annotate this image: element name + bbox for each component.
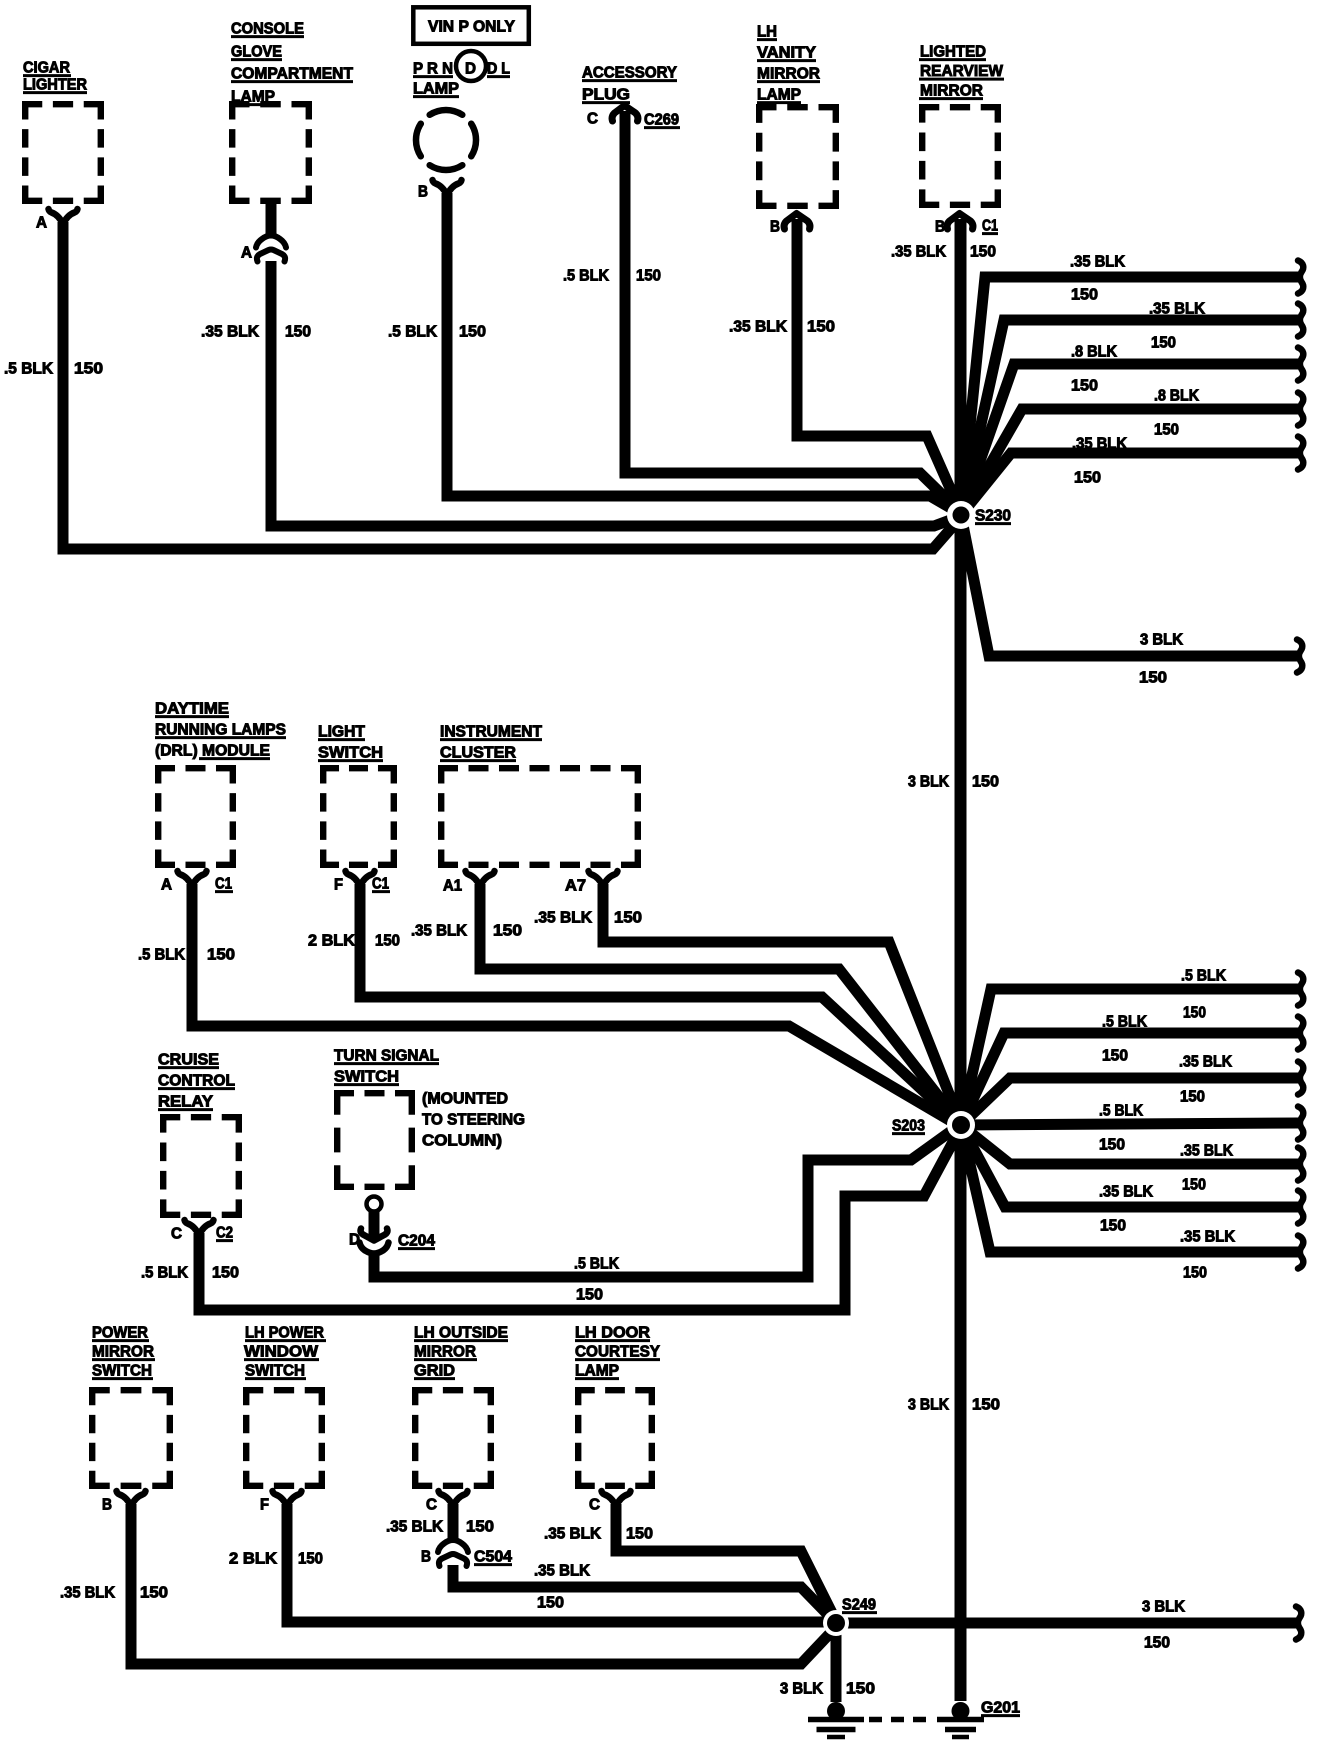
svg-text:C: C <box>171 1226 182 1243</box>
component box POWER MIRROR SWITCH <box>89 1387 173 1393</box>
svg-text:.35 BLK: .35 BLK <box>1070 254 1125 271</box>
wire end clip S203 b1 <box>1298 973 1303 1006</box>
component box LIGHTED REARVIEW MIRROR <box>919 104 1001 110</box>
svg-text:3 BLK: 3 BLK <box>780 1681 823 1698</box>
svg-text:150: 150 <box>285 324 311 341</box>
wire S203 branch 5 (.35 BLK 150) <box>961 1125 1298 1164</box>
connector Y at cluster pin A1 <box>466 871 495 886</box>
svg-text:150: 150 <box>970 244 996 261</box>
wire cluster A7 to S203 (.35 BLK 150) <box>603 884 961 1124</box>
wire turn signal stub <box>369 1211 380 1239</box>
connector Y at cruise relay pin C <box>185 1220 214 1235</box>
svg-text:150: 150 <box>614 910 642 927</box>
svg-text:.5 BLK: .5 BLK <box>141 1265 188 1282</box>
splice S230 <box>947 501 975 529</box>
component box CIGAR LIGHTER <box>22 101 104 107</box>
wire end clip branch 2 <box>1298 304 1303 337</box>
svg-text:B: B <box>421 1549 431 1566</box>
svg-text:.8 BLK: .8 BLK <box>1071 344 1117 361</box>
wire mirror grid stub (.35 BLK 150) <box>448 1504 459 1541</box>
wire S203 branch 7 (.35 BLK 150) <box>961 1125 1298 1252</box>
wire cruise relay to S203 (.5 BLK 150) <box>199 1127 961 1310</box>
svg-text:C: C <box>426 1497 437 1514</box>
component box LH POWER WINDOW SWITCH <box>243 1387 325 1393</box>
wire S203 branch 2 (.5 BLK 150) <box>961 1033 1298 1125</box>
svg-text:.8 BLK: .8 BLK <box>1154 388 1199 405</box>
svg-text:.35 BLK: .35 BLK <box>1072 436 1127 453</box>
connector Y at DRL pin A <box>178 871 207 886</box>
svg-text:150: 150 <box>846 1681 875 1698</box>
svg-text:.5 BLK: .5 BLK <box>563 268 609 285</box>
svg-text:150: 150 <box>375 933 400 950</box>
component box DRL MODULE <box>155 765 236 771</box>
wire S230 branch 5 (.35 BLK 150) <box>961 453 1298 515</box>
svg-text:150: 150 <box>807 319 835 336</box>
svg-text:A: A <box>36 215 47 232</box>
svg-text:150: 150 <box>1180 1089 1205 1106</box>
svg-text:.35 BLK: .35 BLK <box>411 923 467 940</box>
component box TURN SIGNAL SWITCH <box>334 1090 415 1096</box>
svg-text:150: 150 <box>1102 1048 1128 1065</box>
wire power mirror switch to S249 (.35 BLK 150) <box>131 1504 836 1664</box>
wire console lamp stub <box>266 204 277 236</box>
wire end clip S203 b7 <box>1298 1236 1303 1269</box>
svg-text:(MOUNTED: (MOUNTED <box>422 1091 508 1108</box>
component box LH VANITY MIRROR LAMP <box>756 104 839 110</box>
svg-text:B: B <box>770 219 780 236</box>
wire S230 branch 4 (.8 BLK 150) <box>961 409 1298 515</box>
wire S203 branch 6 (.35 BLK 150) <box>961 1125 1298 1207</box>
dashed bond between grounds <box>869 1717 935 1723</box>
svg-text:B: B <box>102 1497 112 1514</box>
component box LIGHT SWITCH <box>320 765 397 771</box>
svg-text:150: 150 <box>972 774 999 791</box>
svg-text:VIN P ONLY: VIN P ONLY <box>428 19 515 36</box>
wire S230 branch 3 (.8 BLK 150) <box>961 364 1298 515</box>
svg-text:150: 150 <box>1100 1218 1126 1235</box>
component box CRUISE CONTROL RELAY <box>160 1114 242 1120</box>
svg-text:.5 BLK: .5 BLK <box>138 947 185 964</box>
wire end clip branch 3 <box>1298 348 1303 381</box>
svg-text:.35 BLK: .35 BLK <box>534 910 592 927</box>
component box LH OUTSIDE MIRROR GRID <box>412 1387 494 1393</box>
wire end clip 3BLK branch <box>1297 640 1302 673</box>
wire turn signal to S203 (.5 BLK 150) <box>374 1124 961 1277</box>
svg-text:150: 150 <box>212 1265 239 1282</box>
wire end clip S203 b2 <box>1298 1017 1303 1050</box>
svg-text:150: 150 <box>74 361 103 378</box>
ground symbol at S249 drop <box>827 1702 845 1720</box>
splice S249 <box>823 1610 849 1636</box>
svg-text:.5 BLK: .5 BLK <box>1102 1014 1147 1031</box>
svg-text:TO STEERING: TO STEERING <box>422 1112 525 1129</box>
svg-text:150: 150 <box>140 1585 168 1602</box>
connector arrow at accessory plug pin C <box>612 106 638 122</box>
svg-text:150: 150 <box>1074 470 1101 487</box>
svg-text:.5 BLK: .5 BLK <box>1181 968 1226 985</box>
lamp symbol PRNDDL (dashed circle) <box>416 110 476 170</box>
svg-text:150: 150 <box>1182 1177 1206 1194</box>
svg-text:150: 150 <box>466 1519 494 1536</box>
svg-text:150: 150 <box>1144 1635 1170 1652</box>
connector Y at cluster pin A7 <box>589 871 618 886</box>
svg-text:3 BLK: 3 BLK <box>908 1397 949 1414</box>
wire end clip branch 4 <box>1298 393 1303 426</box>
svg-text:150: 150 <box>1139 670 1167 687</box>
svg-text:150: 150 <box>626 1526 653 1543</box>
inline connector C204 at pin D <box>361 1229 388 1241</box>
wire end clip S203 b4 <box>1298 1107 1303 1140</box>
svg-text:2 BLK: 2 BLK <box>229 1551 277 1568</box>
connector Y at cigar lighter pin A <box>49 209 78 224</box>
svg-text:.35 BLK: .35 BLK <box>729 319 787 336</box>
wire S230 branch 3 BLK 150 (lower right) <box>961 515 1297 656</box>
wire S203 branch 3 (.35 BLK 150) <box>961 1078 1298 1125</box>
connector Y at power mirror pin B <box>117 1491 146 1506</box>
svg-text:A: A <box>161 877 172 894</box>
svg-text:COLUMN): COLUMN) <box>422 1133 502 1150</box>
connector arrow at rearview mirror pin B <box>947 214 973 230</box>
svg-text:150: 150 <box>459 324 486 341</box>
svg-text:A1: A1 <box>443 878 462 895</box>
svg-text:150: 150 <box>493 923 522 940</box>
svg-text:3 BLK: 3 BLK <box>908 774 949 791</box>
pin circle on turn signal switch <box>367 1197 382 1212</box>
svg-text:3 BLK: 3 BLK <box>1142 1599 1185 1616</box>
wire S203 branch 4 (.5 BLK 150) <box>961 1123 1298 1125</box>
svg-text:F: F <box>260 1497 269 1514</box>
wire S230 branch 2 (.35 BLK 150) <box>961 320 1298 515</box>
svg-text:150: 150 <box>207 947 235 964</box>
wire mirror grid to S249 (.35 BLK 150) <box>453 1565 836 1623</box>
wire end clip branch 1 <box>1298 261 1303 294</box>
wire end clip branch 5 <box>1298 437 1303 470</box>
wire PRNDDL lamp to S230 (.5 BLK 150) <box>447 193 961 514</box>
svg-text:150: 150 <box>636 268 661 285</box>
wire console lamp to S230 (.35 BLK 150) <box>271 261 961 526</box>
svg-text:.35 BLK: .35 BLK <box>891 244 946 261</box>
svg-text:150: 150 <box>972 1397 1000 1414</box>
svg-text:.5 BLK: .5 BLK <box>4 361 53 378</box>
svg-text:A7: A7 <box>565 878 586 895</box>
svg-text:.35 BLK: .35 BLK <box>1149 301 1205 318</box>
inline connector C504 <box>438 1540 468 1552</box>
wire end clip S203 b5 <box>1298 1148 1303 1181</box>
svg-text:2 BLK: 2 BLK <box>308 933 355 950</box>
wire cluster A1 to S203 (.35 BLK 150) <box>480 884 961 1125</box>
svg-text:.5 BLK: .5 BLK <box>388 324 437 341</box>
svg-text:150: 150 <box>576 1287 603 1304</box>
svg-text:150: 150 <box>298 1551 323 1568</box>
component box CONSOLE GLOVE COMPARTMENT LAMP <box>229 101 312 107</box>
wire S249 to right (3 BLK 150) <box>845 1618 1296 1629</box>
svg-text:.5 BLK: .5 BLK <box>1099 1103 1143 1120</box>
svg-text:150: 150 <box>1183 1005 1206 1022</box>
wire vanity lamp to S230 (.35 BLK 150) <box>797 219 961 513</box>
wire cigar lighter to S230 (.5 BLK 150) <box>63 222 961 549</box>
wire S249 to ground (3 BLK 150) <box>831 1628 842 1702</box>
wire window switch to S249 (2 BLK 150) <box>287 1504 836 1622</box>
svg-text:.35 BLK: .35 BLK <box>201 324 259 341</box>
connector arrow at vanity lamp pin B <box>784 214 810 230</box>
wire main ground vertical (rearview mirror to G201) <box>955 219 967 1701</box>
svg-text:D: D <box>465 61 476 78</box>
connector Y at PRNDDL pin B <box>433 180 462 195</box>
wire light switch to S203 (2 BLK 150) <box>360 884 961 1126</box>
wire end clip S203 b3 <box>1298 1062 1303 1095</box>
note box VIN P ONLY <box>413 7 529 44</box>
svg-text:.35 BLK: .35 BLK <box>386 1519 443 1536</box>
component box INSTRUMENT CLUSTER <box>438 765 641 771</box>
svg-text:150: 150 <box>1071 287 1098 304</box>
svg-text:.35 BLK: .35 BLK <box>1179 1054 1232 1071</box>
wire end clip S249 branch <box>1296 1607 1301 1640</box>
svg-text:.35 BLK: .35 BLK <box>60 1585 115 1602</box>
svg-text:A: A <box>241 245 252 262</box>
svg-text:150: 150 <box>1154 422 1179 439</box>
connector Y at mirror grid pin C <box>439 1491 468 1506</box>
svg-text:B: B <box>418 184 428 201</box>
svg-text:C: C <box>589 1497 600 1514</box>
wire S230 branch 1 (.35 BLK 150) <box>961 277 1298 515</box>
svg-text:.35 BLK: .35 BLK <box>1099 1184 1153 1201</box>
ground G201 symbol <box>952 1702 970 1720</box>
wire courtesy lamp to S249 (.35 BLK 150) <box>616 1504 836 1621</box>
svg-text:.35 BLK: .35 BLK <box>534 1563 590 1580</box>
wire S203 branch 1 (.5 BLK 150) <box>961 989 1298 1125</box>
svg-text:3 BLK: 3 BLK <box>1140 632 1183 649</box>
svg-text:.5 BLK: .5 BLK <box>574 1256 619 1273</box>
svg-text:150: 150 <box>1151 335 1176 352</box>
connector Y at window switch pin F <box>273 1491 302 1506</box>
connector Y at courtesy lamp pin C <box>602 1491 631 1506</box>
svg-text:.35 BLK: .35 BLK <box>1180 1229 1235 1246</box>
connector Y at light switch pin F <box>346 871 375 886</box>
svg-text:150: 150 <box>1099 1137 1125 1154</box>
wire accessory plug to S230 (.5 BLK 150) <box>625 111 961 513</box>
wire DRL module to S203 (.5 BLK 150) <box>192 884 961 1127</box>
svg-text:150: 150 <box>1183 1265 1207 1282</box>
svg-text:.35 BLK: .35 BLK <box>1180 1143 1233 1160</box>
svg-text:150: 150 <box>537 1595 564 1612</box>
svg-text:150: 150 <box>1071 378 1098 395</box>
svg-text:C: C <box>587 111 598 128</box>
svg-text:.35 BLK: .35 BLK <box>544 1526 601 1543</box>
inline connector at console lamp pin A <box>256 236 286 248</box>
wire end clip S203 b6 <box>1298 1191 1303 1224</box>
splice S203 <box>947 1111 975 1139</box>
svg-text:F: F <box>334 877 343 894</box>
svg-text:B: B <box>935 219 945 236</box>
component box LH DOOR COURTESY LAMP <box>575 1387 655 1393</box>
